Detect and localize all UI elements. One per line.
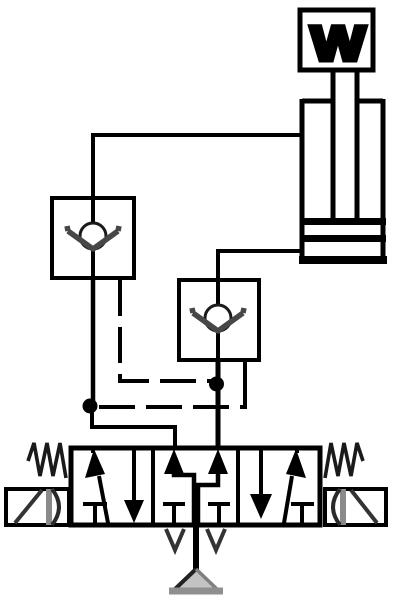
left square blocked port T [83, 504, 107, 525]
right end box curve [333, 489, 340, 525]
cylinder bottom cap [299, 256, 387, 264]
svg-text:W: W [311, 18, 366, 71]
left square down arrow [132, 448, 136, 503]
junction dot J1 [209, 377, 224, 392]
wire box2 through J1 to valve port B [216, 360, 221, 446]
cylinder piston bar 2 [300, 235, 386, 242]
valve main body 3 squares [71, 448, 320, 525]
spring right [325, 443, 363, 478]
right square up arrow [284, 446, 297, 523]
right end box diagonal [351, 490, 377, 523]
wire rod-side line to check valve box1 [93, 135, 302, 196]
check valve CV2 ball [205, 305, 231, 331]
left end box diagonal [15, 490, 42, 523]
left end box divider bar [46, 489, 52, 525]
cylinder rod [333, 72, 357, 220]
left square up arrow [93, 446, 108, 523]
pilot line from box1 (dashed) to junction dot1 [120, 280, 212, 381]
check valve box1 [52, 198, 134, 278]
wire box1 to junction dot2 [91, 278, 96, 404]
check valve CV1 line through [91, 198, 95, 278]
tank line below valve [193, 527, 199, 572]
valve right end box [325, 489, 386, 525]
cylinder body [302, 99, 383, 260]
check valve CV2 seat [192, 308, 244, 331]
valve divider right [236, 448, 240, 525]
pilot riser to box2 bottom [243, 362, 247, 409]
center square arrow to port B [208, 449, 228, 474]
wire J2 to valve port A [92, 406, 175, 446]
spring left [28, 443, 66, 478]
load box W [300, 10, 373, 70]
right end box divider bar [340, 489, 346, 525]
cylinder piston bar 1 [300, 218, 386, 225]
tank triangle [172, 569, 220, 592]
drain V left [166, 529, 184, 550]
junction dot J2 [83, 399, 98, 414]
valve left end box [6, 489, 69, 525]
valve divider left [151, 448, 155, 525]
check valve box2 [179, 280, 259, 360]
check valve CV2 line through [216, 280, 220, 360]
check valve CV1 ball [80, 223, 106, 249]
check valve CV1 seat [67, 226, 119, 249]
center square arrow to port A [164, 449, 184, 474]
right square down arrow [259, 448, 263, 498]
drain V right [207, 529, 225, 550]
left end box curve [52, 489, 59, 525]
right square blocked port T [291, 504, 314, 525]
wire cylinder cap-side to check valve box2 [218, 251, 302, 278]
center square blocked port right [208, 504, 230, 525]
pilot line from J2 (dashed) to CV2 riser [99, 405, 243, 409]
center square blocked port left [163, 504, 185, 525]
